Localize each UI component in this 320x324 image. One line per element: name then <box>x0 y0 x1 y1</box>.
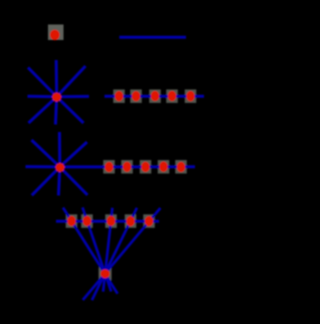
point B2 <box>83 216 91 226</box>
point R2-4 <box>159 162 167 172</box>
point P0 (top) <box>50 30 60 41</box>
pencil star S2: ray SW <box>32 167 60 195</box>
point R2-3 <box>141 162 149 172</box>
point R1-2 <box>132 91 140 101</box>
point R2-2 <box>123 162 131 172</box>
line segment L3 (bottom range) <box>56 220 159 223</box>
gray marker squares row 3 (bottom range) <box>66 214 155 228</box>
pencil star S2: ray S <box>59 167 60 196</box>
point: center of star S2 <box>56 163 65 172</box>
line segment L0 (top right) <box>119 36 186 39</box>
point B4 <box>126 216 134 226</box>
projection ray through point B4 <box>92 208 137 300</box>
point R2-1 <box>105 162 113 172</box>
pencil star S1: ray NW <box>28 68 57 97</box>
pencil star S1: ray E <box>57 95 89 98</box>
pencil star S2: ray NE <box>60 142 87 167</box>
point: center of star S1 <box>52 93 61 102</box>
gray marker square M0 (top point) <box>48 25 64 41</box>
projection ray through point B1 <box>63 208 118 294</box>
pencil star S1: ray N <box>55 60 59 97</box>
gray marker squares row 2 <box>103 160 187 174</box>
pencil star S1: ray S <box>56 97 57 125</box>
pencil star S1: ray SW <box>29 97 57 123</box>
projection ray through point B5 <box>83 208 161 300</box>
pencil star S2: ray N <box>58 132 61 167</box>
pencil star S1: ray SE <box>57 97 84 123</box>
line segment L1 (row 1) <box>105 95 205 98</box>
point: projection center <box>101 269 110 278</box>
pencil star S2: ray SE <box>60 167 88 195</box>
pencil star S2: ray W <box>26 165 60 168</box>
pencil star S1: ray W <box>28 95 57 99</box>
point B5 <box>145 216 153 226</box>
pencil star S2: ray NW <box>32 140 60 167</box>
point R1-4 <box>168 91 176 101</box>
gray marker square (projection center) <box>99 267 112 280</box>
pencil star S2: ray E merged with line segment L2 (row 2) <box>60 165 195 168</box>
point B1 <box>67 216 75 226</box>
gray marker squares row 1 <box>113 89 196 103</box>
projection ray through point B2 <box>83 207 112 291</box>
point R1-5 <box>186 91 194 101</box>
point R1-1 <box>115 91 123 101</box>
point B3 <box>107 216 115 226</box>
point R2-5 <box>177 162 185 172</box>
point R1-3 <box>151 91 159 101</box>
projection ray through point B3 <box>103 208 112 292</box>
pencil star S1: ray NE <box>57 66 86 97</box>
